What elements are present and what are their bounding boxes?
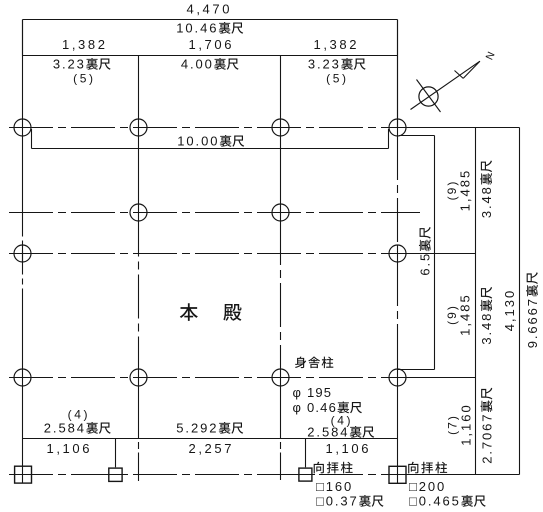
bracket 6.5 shaku top stub (399, 135, 435, 137)
porch post square corner left (15, 466, 32, 483)
svg-text:4,130: 4,130 (502, 289, 517, 332)
svg-text:(7): (7) (445, 414, 459, 435)
svg-text:(5): (5) (326, 71, 348, 85)
svg-text:10.00: 10.00 (177, 134, 219, 149)
svg-text:(5): (5) (73, 71, 95, 85)
column circle row2 col3 (272, 204, 289, 221)
column circle row1 col2 (130, 119, 147, 136)
dim text (9) tier1 (445, 180, 459, 201)
dim text 3.48 ura-shaku tier2 (479, 287, 494, 345)
grid row 4 extension to right dims (398, 377, 476, 379)
grid column 1 lower solid (22, 309, 24, 483)
bracket 6.5 shaku vertical (434, 136, 436, 370)
grid column 3 extension to bottom dim (280, 386, 282, 439)
dim text 9.6667 ura-shaku overall (525, 272, 540, 348)
grid column 2 circle solid (138, 368, 140, 386)
grid column 4 lower solid (397, 368, 399, 484)
svg-text:6.5: 6.5 (418, 252, 433, 276)
svg-text:□160: □160 (316, 479, 353, 494)
porch row extension to right dims (398, 474, 520, 476)
svg-text:9.6667: 9.6667 (525, 297, 540, 348)
svg-text:1,106: 1,106 (47, 441, 93, 456)
svg-text:10.46: 10.46 (176, 21, 218, 36)
svg-text:3.48: 3.48 (479, 185, 494, 218)
column circle row4 col1 (14, 369, 31, 386)
north arrow cross tick (417, 80, 441, 113)
dim text 2.7067 ura-shaku tier3 (479, 388, 494, 464)
svg-text:(4): (4) (68, 407, 90, 421)
grid row 1 extension to right dims (398, 127, 520, 129)
extension line left of top frame (22, 20, 24, 56)
porch line through post left (106, 474, 125, 476)
svg-text:1,106: 1,106 (326, 441, 372, 456)
grid row 3 centre line (9, 253, 398, 255)
svg-text:□0.37: □0.37 (316, 494, 359, 509)
svg-text:□200: □200 (409, 479, 446, 494)
grid row 4 centre line (9, 377, 398, 379)
extension line porch post right (305, 439, 307, 468)
porch post square 160 left (109, 468, 122, 481)
grid column 4 dash a (397, 136, 399, 245)
svg-text:5.292: 5.292 (176, 421, 218, 436)
dim stub left 10.00 (31, 129, 33, 149)
grid column 3 dash below dim (280, 442, 282, 449)
svg-text:4,470: 4,470 (187, 1, 233, 16)
column circle row4 col3 (272, 369, 289, 386)
dim text 6.5 ura-shaku rotated (418, 227, 433, 276)
grid column 2 centre dash (138, 213, 140, 369)
column circle row2 col2 (130, 204, 147, 221)
column circle row4 col4 (389, 369, 406, 386)
grid column 4 circle solid (397, 245, 399, 262)
porch row centre line (9, 474, 398, 476)
column circle row1 col4 (389, 119, 406, 136)
grid column 4 dash b (397, 262, 399, 368)
svg-text:1,706: 1,706 (189, 37, 235, 52)
extension line porch post left (115, 439, 117, 468)
column circle row3 col4 (389, 245, 406, 262)
svg-text:φ 195: φ 195 (293, 385, 333, 400)
dim line bottom (23, 438, 398, 440)
dim line top overall 4470 (23, 19, 398, 21)
dim text (7) tier3 (445, 414, 459, 435)
dim line right 4130 column (519, 128, 521, 475)
column circle row3 col1 (14, 245, 31, 262)
column circle row1 col3 (272, 119, 289, 136)
svg-text:2.584: 2.584 (44, 421, 86, 436)
column circle row4 col2 (130, 369, 147, 386)
north arrow shaft (411, 61, 480, 109)
dim line top bays (23, 55, 398, 57)
north arrow head side (463, 61, 480, 78)
grid row 2 centre line (9, 212, 420, 214)
grid column 2 porch solid (138, 453, 140, 482)
svg-text:□0.465: □0.465 (409, 494, 461, 509)
grid column 1 upper solid (22, 20, 24, 213)
title honden (180, 303, 198, 321)
svg-text:4.00: 4.00 (181, 57, 214, 72)
north arrow circle (419, 87, 438, 106)
svg-text:3.23: 3.23 (53, 57, 86, 72)
porch post square 200 corner (389, 466, 406, 483)
porch line through post right (296, 474, 315, 476)
grid column 1 circle solid (22, 245, 24, 262)
extension line right of top frame (397, 20, 399, 128)
dim text 3.48 ura-shaku tier1 (479, 160, 494, 218)
porch post square 160 right (299, 468, 312, 481)
grid column 3 porch solid (280, 453, 282, 481)
dim text 1160 tier3 (458, 403, 473, 446)
svg-text:2,257: 2,257 (189, 441, 235, 456)
grid row 3 extension to right dims (398, 253, 476, 255)
dim text (9) tier2 (445, 304, 459, 325)
svg-text:2.584: 2.584 (307, 425, 349, 440)
north arrow head base (455, 71, 464, 79)
grid column 1 centre dash (22, 213, 24, 310)
column circle row1 col1 (14, 119, 31, 136)
svg-text:3.23: 3.23 (308, 57, 341, 72)
dim text 1485 tier2 (457, 293, 472, 336)
grid column 2 dash below dim (138, 442, 140, 449)
grid row 1 centre line (9, 127, 398, 129)
label kohai-bashira left (314, 462, 324, 474)
grid column 4 upper solid (397, 20, 399, 137)
svg-text:3.48: 3.48 (479, 312, 494, 345)
svg-text:1,382: 1,382 (62, 37, 108, 52)
svg-text:1,382: 1,382 (314, 37, 360, 52)
dim line right 1485 column (475, 128, 477, 475)
grid column 3 circle solid (280, 368, 282, 386)
dim text 1485 tier1 (457, 169, 472, 212)
svg-text:1,485: 1,485 (457, 293, 472, 336)
dim line 10.00 shaku (32, 148, 389, 150)
svg-text:2.7067: 2.7067 (479, 413, 494, 464)
grid column 2 extension to bottom dim (138, 386, 140, 439)
grid column 2 upper solid (138, 56, 140, 213)
grid column 3 upper solid (280, 56, 282, 222)
grid column 3 centre dash (280, 221, 282, 368)
svg-text:1,485: 1,485 (457, 169, 472, 212)
svg-text:1,160: 1,160 (458, 403, 473, 446)
label moya-bashira (295, 357, 306, 369)
label kohai-bashira right (408, 462, 418, 474)
dim stub right 10.00 (388, 129, 390, 149)
dim text 4130 overall (502, 289, 517, 332)
bracket 6.5 shaku bottom stub (398, 369, 435, 371)
